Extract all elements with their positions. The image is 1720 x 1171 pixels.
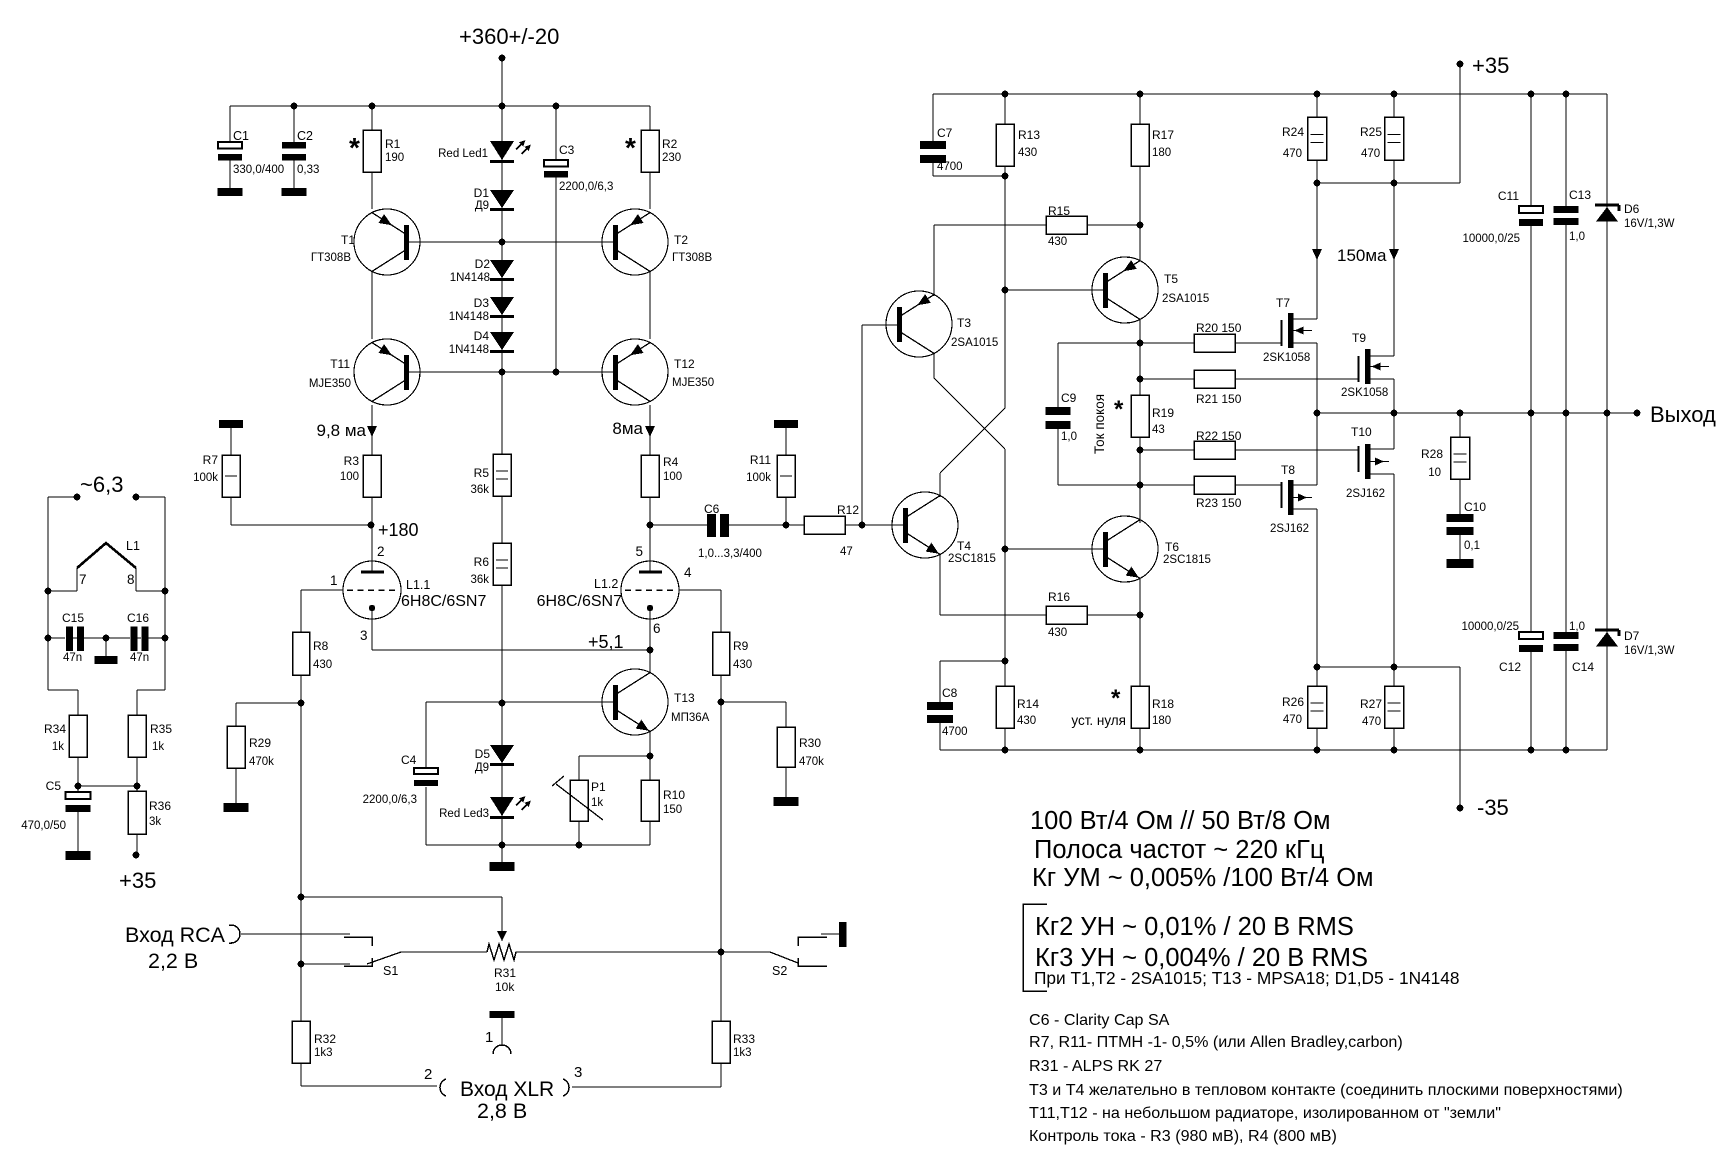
svg-text:2200,0/6,3: 2200,0/6,3 [559,181,613,193]
svg-text:470: 470 [1362,716,1381,728]
junction [499,239,506,246]
wire T9 source [1370,378,1394,380]
capacitor C12 [1519,632,1543,652]
svg-text:R19: R19 [1152,406,1174,420]
junction [1002,747,1009,754]
wire to R35 [137,689,165,691]
svg-text:470: 470 [1283,714,1302,726]
svg-text:T7: T7 [1276,296,1290,310]
spec bracket [1023,904,1047,991]
transistor T4 [892,492,958,558]
resistor R12 [804,516,845,534]
junction [1604,410,1611,417]
capacitor C10 [1447,514,1474,535]
svg-text:T8: T8 [1281,463,1295,477]
svg-text:1k: 1k [152,741,164,753]
svg-text:Выход: Выход [1650,402,1716,427]
LED Red Led3 [490,797,514,816]
wire C1 stem [229,106,231,188]
junction [1137,376,1144,383]
svg-text:36k: 36k [470,484,489,496]
svg-text:C1: C1 [233,129,249,143]
resistor R32 [292,1021,310,1063]
junction [647,753,654,760]
capacitor C3 [544,160,568,178]
wire S2 to ground bar [821,933,839,935]
junction [369,103,376,110]
svg-text:R8: R8 [313,639,329,653]
svg-text:2SC1815: 2SC1815 [1163,554,1211,566]
svg-text:T5: T5 [1164,272,1178,286]
svg-text:T1: T1 [341,233,355,247]
tube half L1.2 [621,561,679,619]
svg-text:C5: C5 [46,779,62,793]
junction [368,522,375,529]
junction [859,522,866,529]
svg-text:*: * [1111,685,1121,712]
connector XLR pin 3 [563,1079,569,1096]
svg-text:C3: C3 [559,143,575,157]
connector XLR pin 2 [440,1079,446,1096]
svg-text:D4: D4 [474,329,490,343]
svg-text:R21 150: R21 150 [1196,392,1242,406]
junction [291,103,298,110]
junction [45,588,52,595]
wire T3 base [862,324,898,326]
wire XLR pin1 [501,1018,503,1045]
svg-text:9,8 ма: 9,8 ма [317,421,367,440]
wire T12 collector through R4 to node and tube plate [649,405,651,572]
wire R4 node to C6 [650,524,707,526]
wire C15 row [48,637,65,639]
svg-text:*: * [625,132,636,163]
wire C9 bottom row to R23 row [1058,484,1194,486]
junction [1137,447,1144,454]
wire node to R29 [236,702,301,704]
wire R23 to T8 gate [1235,484,1281,486]
wire R31 wiper feed [301,896,502,898]
svg-text:T9: T9 [1352,331,1366,345]
junction [1391,91,1398,98]
wire R11 to C6/R12 row [785,497,787,525]
svg-text:100k: 100k [193,472,218,484]
resistor R20 [1194,334,1235,352]
capacitor C15 [66,627,73,652]
svg-text:R33: R33 [733,1032,755,1046]
resistor R11 [777,455,795,497]
wire +360 feed / diode chain D1-D4,R5,R6,D5,Led3 vertical [501,58,503,862]
junction [1137,91,1144,98]
svg-text:8: 8 [127,572,135,587]
net -35 row [1317,666,1460,668]
wire R31 to node [517,951,721,953]
capacitor C11 [1519,206,1543,226]
svg-text:-35: -35 [1477,795,1509,820]
svg-text:R32: R32 [314,1032,336,1046]
svg-text:6Н8С/6SN7: 6Н8С/6SN7 [401,593,486,610]
junction [162,635,169,642]
junction [1563,410,1570,417]
svg-text:1N4148: 1N4148 [449,311,489,323]
svg-text:2SJ162: 2SJ162 [1270,523,1309,535]
svg-text:R31 - ALPS RK 27: R31 - ALPS RK 27 [1029,1057,1162,1075]
svg-text:R14: R14 [1017,697,1039,711]
resistor R2 [641,130,659,172]
svg-text:T12: T12 [674,357,695,371]
wire T7 source [1293,342,1317,344]
junction [499,700,506,707]
svg-text:Ток покоя: Ток покоя [1092,394,1107,454]
wire heater pin7 [76,568,78,591]
wire T8 drain [1293,508,1317,510]
svg-text:5: 5 [635,544,643,559]
svg-text:R20 150: R20 150 [1196,321,1242,335]
junction [499,103,506,110]
wire +35 feed [1459,64,1461,183]
current arrow 9,8 ma [367,426,377,437]
wire C5 stem [77,786,79,851]
resistor R18 [1131,686,1149,728]
junction [499,369,506,376]
capacitor C9 [1046,407,1071,429]
capacitor C4 [414,768,438,786]
svg-text:2: 2 [377,544,385,559]
wire S1 arm to R31 [401,951,487,953]
svg-text:R3: R3 [344,454,360,468]
svg-text:R1: R1 [385,137,401,151]
wire T7 drain [1293,318,1317,320]
svg-text:S2: S2 [772,964,787,978]
svg-text:D3: D3 [474,296,490,310]
wire grid/R9/R33 vertical [720,590,722,1087]
wire R30 to ground [785,767,787,797]
wire -35 feed [1459,667,1461,808]
resistor R14 [996,686,1014,728]
svg-text:1N4148: 1N4148 [449,344,489,356]
svg-text:R7, R11- ПТМН -1- 0,5% (или Al: R7, R11- ПТМН -1- 0,5% (или Allen Bradle… [1029,1033,1403,1051]
svg-text:2SA1015: 2SA1015 [1162,293,1209,305]
junction [133,494,140,501]
wire R24 column to T7 drain [1316,94,1318,319]
svg-text:L1.1: L1.1 [406,578,430,592]
wire T9 drain [1370,355,1394,357]
svg-text:330,0/400: 330,0/400 [233,164,284,176]
junction [718,949,725,956]
svg-text:R2: R2 [662,137,678,151]
wire center of C15/C16 to ground [82,637,130,639]
connector RCA [231,925,240,943]
junction [1002,91,1009,98]
ground heater mid [95,656,118,664]
wire T7/T8 source column to output [1316,343,1318,485]
svg-text:уст. нуля: уст. нуля [1071,713,1126,728]
resistor R16 [1046,606,1087,624]
net gate-bias rail (top right) [933,93,1607,95]
svg-text:R6: R6 [474,555,490,569]
junction [298,894,305,901]
junction [134,783,141,790]
junction [499,55,506,62]
junction [1391,664,1398,671]
junction [1528,410,1535,417]
svg-text:2SC1815: 2SC1815 [948,553,996,565]
junction [45,635,52,642]
svg-text:Д9: Д9 [475,762,489,774]
ground under C5 [66,851,91,860]
junction [133,852,140,859]
net +360 rail [230,105,650,107]
svg-text:T6: T6 [1165,540,1179,554]
junction [1391,747,1398,754]
svg-text:150: 150 [663,804,682,816]
svg-text:R31: R31 [494,966,516,980]
svg-text:R15: R15 [1048,204,1070,218]
wire R20 to T7 gate [1235,342,1281,344]
junction [783,522,790,529]
resistor R24 [1308,117,1327,160]
wire R21 row [1140,378,1194,380]
junction [1563,91,1570,98]
wire T5 collector [1139,319,1141,344]
svg-text:C6 - Clarity Cap SA: C6 - Clarity Cap SA [1029,1011,1170,1029]
svg-text:Т11,Т12 - на небольшом радиато: Т11,Т12 - на небольшом радиаторе, изолир… [1029,1104,1501,1122]
resistor R4 [641,455,659,497]
wire C13 column [1565,94,1567,413]
svg-text:+5,1: +5,1 [588,632,624,652]
junction [1002,287,1009,294]
ground under R29 [224,803,249,812]
svg-text:C16: C16 [127,611,149,625]
wire diode string to ground [501,845,503,862]
wire C4 stem top [425,702,427,768]
diode D3 [490,297,514,315]
resistor R30 [777,727,795,767]
junction [1528,91,1535,98]
MOSFET T10 [1365,444,1371,479]
wire T8 source [1293,484,1317,486]
resistor R5 [493,454,511,496]
svg-text:*: * [349,132,360,163]
wire bias bus R19 [1139,344,1141,520]
wire T11-T12 base line [409,371,614,373]
svg-text:430: 430 [1048,627,1067,639]
ground [282,188,307,196]
wire R15 to node [1088,224,1140,226]
svg-text:1k3: 1k3 [314,1047,333,1059]
capacitor C13 [1554,206,1579,225]
svg-text:R7: R7 [203,453,219,467]
trimmer P1 [570,780,588,821]
svg-text:Полоса частот ~ 220 кГц: Полоса частот ~ 220 кГц [1034,836,1325,864]
svg-text:190: 190 [385,152,404,164]
svg-text:D5: D5 [475,747,491,761]
svg-text:R4: R4 [663,455,679,469]
svg-text:R26: R26 [1282,695,1304,709]
wire C9 stem bottom [1057,429,1059,485]
wire T5 base [1005,289,1104,291]
wire C3 branch [555,106,557,372]
svg-text:ГТ308В: ГТ308В [311,252,351,264]
capacitor C7 [920,141,946,163]
wire D7 column [1606,413,1608,750]
wire R16 row [940,614,1046,616]
ground under diode chain [490,862,515,871]
svg-text:3: 3 [360,628,368,643]
svg-text:470k: 470k [249,756,274,768]
junction [1314,747,1321,754]
svg-text:При Т1,Т2 - 2SA1015; Т13 - MPS: При Т1,Т2 - 2SA1015; Т13 - MPSA18; D1,D5… [1034,968,1460,988]
svg-text:4700: 4700 [937,161,963,173]
connector XLR pin 1 [493,1045,511,1054]
junction [1314,180,1321,187]
resistor R26 [1308,686,1327,728]
wire R25 column to T9 drain [1393,94,1395,356]
wire L1.1 grid [301,589,343,591]
diode D2 [490,260,514,278]
svg-text:1N4148: 1N4148 [450,272,490,284]
wire RCA input [241,933,350,935]
wire R2 branch [649,106,651,209]
MOSFET T7 [1288,313,1294,348]
wire XLR pin3 to R33 [572,1086,721,1088]
junction [162,588,169,595]
svg-text:7: 7 [79,572,87,587]
resistor R6 [493,543,511,585]
capacitor C14 [1554,632,1579,651]
resistor R7 [222,455,240,497]
diode D5 [490,745,514,763]
svg-text:16V/1,3W: 16V/1,3W [1624,645,1675,657]
wire grid/R8/input vertical [300,590,302,1086]
wire R17 branch / T5 emitter [1139,94,1141,261]
wire C7 bottom to node [932,163,934,176]
svg-text:Red Led1: Red Led1 [438,148,488,160]
junction [1002,546,1009,553]
svg-text:2SA1015: 2SA1015 [951,337,998,349]
junction [1002,658,1009,665]
current arrow 8 ma [645,426,655,437]
current arrow 150ma right [1389,249,1399,260]
capacitor C2 [282,142,306,161]
svg-text:430: 430 [1048,236,1067,248]
svg-text:C9: C9 [1061,391,1077,405]
wire T3 emitter to R15 [933,225,935,296]
svg-text:+360+/-20: +360+/-20 [459,24,559,49]
wire D6 column [1606,94,1608,413]
wire T8 drain to -35 row [1316,509,1318,667]
svg-text:100 Вт/4 Ом // 50 Вт/8 О: 100 Вт/4 Ом // 50 Вт/8 Ом [1030,807,1331,835]
resistor R19 [1131,395,1149,437]
wire T2 collector to T12 emitter [649,271,651,339]
junction [298,961,305,968]
svg-text:430: 430 [1017,715,1036,727]
wire node to R10 [649,756,651,780]
svg-text:150ма: 150ма [1337,246,1387,265]
svg-text:1: 1 [485,1029,493,1046]
wire R22 row [1140,449,1194,451]
svg-text:C10: C10 [1464,500,1486,514]
svg-text:T13: T13 [674,691,695,705]
junction [1314,91,1321,98]
svg-text:C12: C12 [1499,660,1521,674]
resistor R15 [1046,216,1087,234]
svg-text:1,0: 1,0 [1061,431,1077,443]
svg-text:R36: R36 [149,799,171,813]
svg-text:+35: +35 [119,868,156,893]
wire T10 source [1370,448,1394,450]
svg-text:100: 100 [663,471,682,483]
svg-text:230: 230 [662,152,681,164]
junction [298,700,305,707]
wire cathode bus +5,1 [372,649,650,651]
svg-text:R29: R29 [249,736,271,750]
svg-text:10k: 10k [495,980,515,994]
wire T3 collector diagonal [933,353,935,378]
junction [647,647,654,654]
junction [1457,61,1464,68]
wire C2 stem [293,106,295,188]
svg-text:R11: R11 [750,453,771,467]
junction [1137,482,1144,489]
junction [1137,612,1144,619]
wire S2 arm [721,951,770,953]
svg-text:43: 43 [1152,424,1165,436]
wire C6 to R12 to T4 base node [729,524,904,526]
svg-text:430: 430 [1018,147,1037,159]
svg-text:R17: R17 [1152,128,1174,142]
wire to T13 collector [649,650,651,673]
svg-text:+35: +35 [1472,53,1509,78]
svg-text:ГТ308В: ГТ308В [672,252,712,264]
wire R10 bottom [649,821,651,845]
resistor R29 [227,726,245,768]
wire T4 collector diagonal [940,408,1005,473]
capacitor C1 [218,142,242,161]
svg-text:1,0: 1,0 [1569,621,1585,633]
zener D6 [1595,204,1619,207]
svg-text:430: 430 [733,659,752,671]
svg-text:470k: 470k [799,756,824,768]
wire L1.1 cathode [371,608,373,650]
svg-text:Вход XLR: Вход XLR [460,1078,554,1101]
svg-text:0,33: 0,33 [297,164,319,176]
svg-text:2200,0/6,3: 2200,0/6,3 [363,794,417,806]
wire T6 base [1005,548,1104,550]
svg-text:0,1: 0,1 [1464,540,1480,552]
ground under R30 [774,797,799,806]
svg-text:C4: C4 [401,753,417,767]
svg-text:MJE350: MJE350 [309,378,351,390]
wire R36 to +35 terminal [136,786,138,791]
svg-text:Д9: Д9 [475,200,489,212]
svg-text:2SK1058: 2SK1058 [1341,387,1388,399]
svg-text:*: * [1114,396,1124,423]
junction [74,494,81,501]
svg-text:47: 47 [840,546,853,558]
wire T13 emitter [649,731,651,756]
wire R28/C10 branch [1459,413,1461,559]
wire heater pin8 [135,568,137,591]
heater winding L1 [77,543,136,568]
wire R34-R35 bottom row [78,785,137,787]
ground above R7 [219,420,243,428]
resistor R13 [996,124,1014,166]
transistor T5 [1092,257,1158,323]
wire T9/T10 source column to output [1393,379,1395,449]
svg-text:MJE350: MJE350 [672,377,714,389]
svg-text:C2: C2 [297,129,313,143]
transistor T2 [602,209,668,275]
